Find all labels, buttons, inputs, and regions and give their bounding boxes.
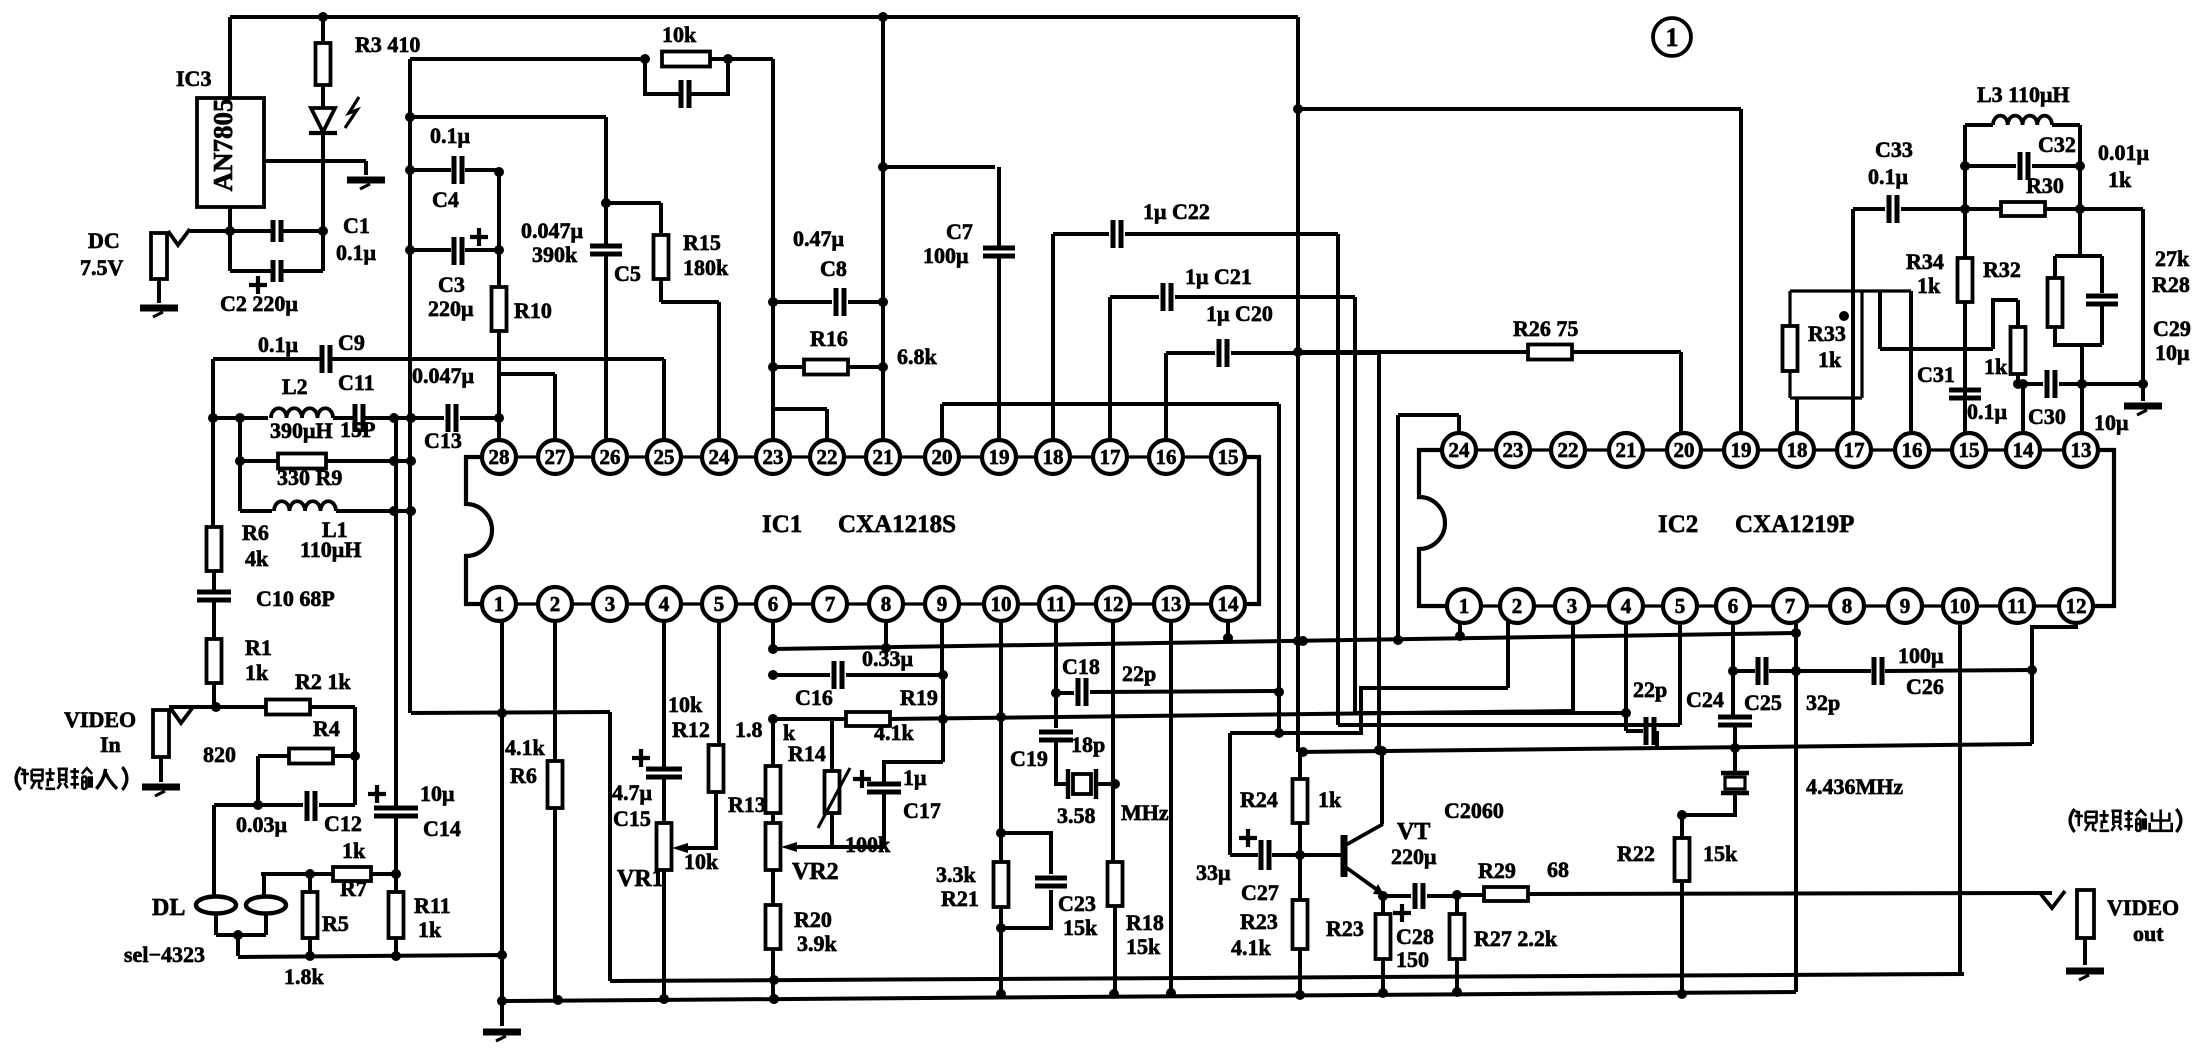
wire pin5 col to R12 <box>717 621 721 745</box>
wire top link to IC2 pin19 <box>1298 107 1741 111</box>
pin 23 <box>1496 433 1530 467</box>
wire R16 left <box>773 365 804 369</box>
svg-text:R33: R33 <box>1808 321 1846 346</box>
pin 9 <box>925 587 959 621</box>
svg-text:1μ C21: 1μ C21 <box>1185 264 1252 289</box>
wire R7 right <box>371 872 396 876</box>
pin 12 <box>2059 589 2093 623</box>
junction video in node <box>211 702 221 712</box>
svg-text:3.58: 3.58 <box>1057 803 1096 828</box>
resistor R24 <box>1293 779 1308 823</box>
wire C8 left <box>773 300 832 304</box>
svg-text:10: 10 <box>991 592 1012 616</box>
wire right edge column <box>2141 209 2145 384</box>
svg-text:390μH: 390μH <box>270 418 333 443</box>
svg-text:15: 15 <box>1218 445 1239 469</box>
wire C12 left <box>214 803 303 807</box>
svg-text:C27: C27 <box>1241 880 1279 905</box>
resistor R18 <box>1108 862 1123 906</box>
junction pin14 <box>1223 633 1233 643</box>
svg-text:32p: 32p <box>1806 690 1840 715</box>
svg-text:0.47μ: 0.47μ <box>793 226 845 251</box>
junction C1 right <box>318 226 328 236</box>
capacitor C30 <box>2047 370 2055 398</box>
wire to main ground <box>500 1001 504 1026</box>
svg-text:C1: C1 <box>343 213 370 238</box>
wire pin22-23 tie <box>773 407 827 411</box>
svg-text:C30: C30 <box>2028 404 2066 429</box>
svg-text:R2 1k: R2 1k <box>295 669 351 694</box>
wire R15 top lead <box>659 203 663 235</box>
pin 15 <box>1952 433 1986 467</box>
wire C29 bottom lead <box>2100 304 2104 345</box>
wire R28 loop top <box>2080 254 2102 258</box>
label video output chinese <box>2070 809 2181 832</box>
svg-text:330 R9: 330 R9 <box>277 465 342 490</box>
wire DL bottom tie <box>216 933 266 937</box>
wire C27 right <box>1272 853 1300 857</box>
wire parallel left leg <box>238 418 242 511</box>
wire pin19 IC2 column <box>1739 109 1743 433</box>
wire emitter to C28 <box>1383 894 1411 898</box>
svg-text:IC2: IC2 <box>1658 511 1698 538</box>
wire VR2-R20 <box>771 870 775 905</box>
svg-text:R20: R20 <box>794 907 832 932</box>
capacitor C4 <box>454 156 462 184</box>
svg-text:4.1k: 4.1k <box>874 720 915 745</box>
svg-text:0.1μ: 0.1μ <box>1967 399 2008 424</box>
svg-text:0.1μ: 0.1μ <box>430 123 471 148</box>
resistor R9 <box>278 454 326 469</box>
svg-text:23: 23 <box>1503 438 1524 462</box>
wire IC3 gnd pin <box>264 159 366 163</box>
wire pin18 column <box>1051 234 1055 440</box>
resistor R28 <box>2048 278 2063 327</box>
wire C33 left lead <box>1853 207 1885 211</box>
svg-text:C11: C11 <box>338 370 375 395</box>
wire R5 top lead <box>308 874 312 892</box>
wire C18 left lead <box>1056 691 1074 695</box>
svg-text:R10: R10 <box>514 298 552 323</box>
resistor R3 <box>316 43 331 85</box>
resistor R30 <box>2001 202 2045 216</box>
pin 2 <box>538 587 572 621</box>
wire R3 to LED <box>321 85 325 108</box>
wire pin13 column <box>1169 621 1173 993</box>
wire cap loop right <box>689 59 728 94</box>
svg-text:21: 21 <box>1616 438 1637 462</box>
svg-text:3.3k: 3.3k <box>936 862 977 887</box>
svg-text:CXA1218S: CXA1218S <box>838 511 956 538</box>
wire C12 right <box>319 803 355 807</box>
junction 10k right <box>723 54 733 64</box>
wire C4 right <box>465 168 499 172</box>
svg-text:R28: R28 <box>2152 272 2190 297</box>
label circled 1 <box>1653 18 1691 56</box>
svg-text:VR2: VR2 <box>792 859 839 885</box>
junction DL bottom <box>233 930 243 940</box>
wire rail to riser <box>411 712 610 713</box>
svg-text:4.1k: 4.1k <box>505 735 546 760</box>
ground right <box>2124 403 2162 410</box>
svg-text:13: 13 <box>2071 438 2092 462</box>
svg-text:R19: R19 <box>900 685 938 710</box>
pin 7 <box>813 587 847 621</box>
svg-text:C5: C5 <box>614 261 641 286</box>
svg-text:10k: 10k <box>668 692 703 717</box>
svg-text:R4: R4 <box>313 716 340 741</box>
wire C7 top row <box>883 165 995 169</box>
svg-text:R12: R12 <box>672 717 710 742</box>
junction R22 top <box>1677 810 1687 820</box>
pin 9 <box>1888 589 1922 623</box>
capacitor C26 <box>1874 657 1882 685</box>
wire C26 right <box>1885 670 2032 671</box>
svg-text:5: 5 <box>714 592 725 616</box>
delay line DL disc 1 <box>196 897 236 914</box>
svg-text:C4: C4 <box>432 187 459 212</box>
pin 25 <box>647 440 681 474</box>
pin 21 <box>866 440 900 474</box>
wiper arrow VR1 <box>672 843 688 853</box>
svg-text:15k: 15k <box>1703 841 1738 866</box>
wire pin6 stub <box>771 621 775 650</box>
pin 11 <box>2000 589 2034 623</box>
wire main right rail <box>1296 17 1300 752</box>
wire pin16 column <box>1164 353 1168 440</box>
wire R7 row left <box>261 872 333 876</box>
junction 10k left <box>640 54 650 64</box>
wire C2 right <box>281 269 323 273</box>
svg-text:10μ: 10μ <box>2155 340 2190 365</box>
svg-text:0.1μ: 0.1μ <box>258 332 299 357</box>
resistor R11 <box>389 892 404 938</box>
junction pin10 col <box>996 712 1006 722</box>
wire C18 jog to IC2 <box>1230 688 1508 733</box>
svg-text:1.8k: 1.8k <box>284 964 325 989</box>
svg-text:VIDEO: VIDEO <box>2107 895 2179 920</box>
svg-text:2: 2 <box>550 592 561 616</box>
capacitor C19 <box>1039 732 1073 740</box>
pin 17 <box>1093 440 1127 474</box>
capacitor C13 <box>448 404 456 432</box>
junction collector <box>1377 746 1387 756</box>
svg-text:100μ: 100μ <box>923 243 969 268</box>
svg-text:14: 14 <box>1218 592 1240 616</box>
wire pin21 column <box>881 17 885 440</box>
wire L3 left <box>1965 123 1993 127</box>
wire IC1 pin rows <box>482 457 1245 604</box>
wire disc2 top <box>262 874 266 897</box>
resistor R32 <box>2011 327 2026 374</box>
svg-text:22: 22 <box>1558 438 1579 462</box>
wire C10 to R1 <box>212 600 216 639</box>
wire to R15 <box>606 201 661 205</box>
svg-text:1k: 1k <box>2108 167 2132 192</box>
pin 14 <box>1211 587 1245 621</box>
svg-text:22p: 22p <box>1633 677 1667 702</box>
junction base node <box>1295 850 1305 860</box>
capacitor C23 <box>1035 878 1067 886</box>
wire collector line <box>1298 744 2032 752</box>
svg-text:11: 11 <box>1046 592 1066 616</box>
svg-text:19: 19 <box>989 445 1010 469</box>
svg-text:6.8k: 6.8k <box>897 344 938 369</box>
wire C33 to R30 <box>1901 207 2001 211</box>
pin 13 <box>2064 433 2098 467</box>
pin 23 <box>756 440 790 474</box>
capacitor C15 <box>646 769 682 777</box>
pin 17 <box>1837 433 1871 467</box>
svg-text:820: 820 <box>203 742 236 767</box>
capacitor C2 <box>273 260 281 282</box>
svg-text:R6: R6 <box>242 520 269 545</box>
wire pin22 stub <box>825 409 829 440</box>
wire pin11 column <box>1054 621 1058 693</box>
wire C20 right <box>1231 351 1379 355</box>
capacitor C17 <box>867 784 901 792</box>
resistor R16 <box>804 360 848 375</box>
svg-text:9: 9 <box>937 592 948 616</box>
wire out jack gnd <box>2083 938 2087 965</box>
wire pin6 col down <box>771 719 775 766</box>
svg-text:VR1: VR1 <box>617 866 664 892</box>
pin 10 <box>1943 589 1977 623</box>
svg-text:C16: C16 <box>795 685 833 710</box>
junction R15 top <box>601 198 611 208</box>
wire pin4 IC2 column <box>1624 624 1628 731</box>
svg-text:4.436MHz: 4.436MHz <box>1806 774 1903 799</box>
wire L1 right <box>336 509 411 513</box>
inductor L3 <box>1993 116 2052 125</box>
resistor R29 <box>1484 887 1528 901</box>
ground IC3 <box>347 177 385 184</box>
junction jog <box>1274 728 1284 738</box>
svg-text:16: 16 <box>1902 438 1923 462</box>
svg-text:C33: C33 <box>1875 137 1913 162</box>
svg-text:0.03μ: 0.03μ <box>236 812 288 837</box>
resistor R26 <box>1528 345 1572 360</box>
wire C4 left <box>410 168 451 172</box>
pin 5 <box>1663 589 1697 623</box>
pin 26 <box>593 440 627 474</box>
junction pin7 <box>1791 628 1801 638</box>
wire pin23 column <box>771 59 775 440</box>
wire bus riser <box>608 712 612 981</box>
wire R22 to bus <box>1680 881 1684 994</box>
junction pin8 <box>881 643 891 653</box>
pin 8 <box>1830 589 1864 623</box>
wire pin12 column <box>1111 621 1115 862</box>
wire upper bus <box>610 974 1964 981</box>
wire R28 top lead <box>2053 256 2057 278</box>
svg-text:R24: R24 <box>1240 787 1278 812</box>
wire right drop 1279 <box>1277 404 1281 733</box>
junction C7 row <box>878 162 888 172</box>
capacitor C5 <box>590 246 622 254</box>
wire R32 top lead <box>2016 300 2020 327</box>
svg-text:10μ: 10μ <box>420 781 455 806</box>
pin 1 <box>482 587 516 621</box>
wire R11 bottom <box>394 938 398 956</box>
wire C32 right <box>2032 164 2080 168</box>
pin 11 <box>1039 587 1073 621</box>
wire R3 top <box>321 17 325 43</box>
wire IC2 pin rows <box>1442 450 2098 606</box>
wire R28 bottom <box>2055 327 2102 345</box>
svg-text:10μ: 10μ <box>2094 410 2129 435</box>
wire C15 to VR1 <box>662 777 666 823</box>
svg-text:390k: 390k <box>532 242 578 267</box>
pin 24 <box>1442 433 1476 467</box>
resistor R23a <box>1293 900 1308 949</box>
wire R4 left leg <box>256 756 260 805</box>
wire C29 top lead <box>2100 256 2104 293</box>
junction R16 left <box>768 362 778 372</box>
wire R20 to bus <box>771 949 775 999</box>
resistor R33 <box>1783 326 1798 371</box>
wire C30 left lead <box>2018 382 2043 386</box>
svg-text:C25: C25 <box>1744 690 1782 715</box>
svg-text:R5: R5 <box>322 911 349 936</box>
junction crystal col <box>1730 743 1740 753</box>
wire C22 left <box>1053 232 1109 236</box>
pot arrow R14 <box>818 768 850 828</box>
capacitor C10 <box>197 592 231 600</box>
wire L3 right <box>2052 123 2080 127</box>
svg-text:R23: R23 <box>1326 916 1364 941</box>
pin 22 <box>1551 433 1585 467</box>
svg-text:C9: C9 <box>338 330 365 355</box>
wire C27 left leg <box>1228 733 1232 855</box>
wire C20 left <box>1166 351 1215 355</box>
svg-text:19: 19 <box>1731 438 1752 462</box>
capacitor 10k parallel <box>681 80 689 108</box>
resistor R6b <box>548 761 563 808</box>
junction R7 right <box>391 869 401 879</box>
wire R30 right <box>2045 207 2143 211</box>
wire C11 right <box>363 416 411 420</box>
junction output node <box>1452 890 1462 900</box>
wire C5 top row <box>410 115 606 119</box>
resistor R19 <box>846 712 890 726</box>
wire L2 row left <box>213 416 268 420</box>
svg-text:27k: 27k <box>2155 246 2190 271</box>
wire pin24 top link <box>1398 413 1459 417</box>
wire C13 left <box>411 416 444 420</box>
svg-text:18: 18 <box>1787 438 1808 462</box>
pin 21 <box>1609 433 1643 467</box>
wire C21 right <box>1175 295 1355 299</box>
svg-text:8: 8 <box>881 592 892 616</box>
wire C22 drop <box>1336 234 1340 725</box>
svg-text:R18: R18 <box>1126 910 1164 935</box>
junction C13 right <box>494 413 504 423</box>
svg-text:1: 1 <box>494 592 505 616</box>
wire C19 top <box>1054 693 1058 728</box>
svg-text:28: 28 <box>489 445 510 469</box>
wire jack gnd <box>159 757 163 782</box>
svg-text:MHz: MHz <box>1121 800 1169 825</box>
wire C23 top loop <box>1001 833 1051 874</box>
wire pin9 stub <box>940 621 944 675</box>
wire C3 right <box>465 248 499 252</box>
pin 18 <box>1780 433 1814 467</box>
svg-text:23: 23 <box>763 445 784 469</box>
wire R12 to VR1 wiper <box>681 792 716 848</box>
wire R32 bottom <box>2016 374 2020 384</box>
svg-text:14: 14 <box>2013 438 2035 462</box>
resistor R2 <box>266 700 310 715</box>
svg-text:18p: 18p <box>1071 732 1105 757</box>
junction R9 left <box>235 456 245 466</box>
wire R11 top <box>394 874 398 892</box>
svg-text:R16: R16 <box>810 326 848 351</box>
wire C18 line <box>1090 691 1279 692</box>
wire C14 bottom <box>394 817 398 874</box>
junction pin1 IC2 <box>1455 631 1465 641</box>
junction crystal/pin12 <box>1110 779 1120 789</box>
wire pin20 top row <box>942 402 1279 406</box>
LED diode <box>311 108 335 132</box>
junction R24 top <box>1298 747 1308 757</box>
wire pin1 IC1 column <box>500 621 504 1001</box>
wire C20 drop <box>1377 353 1381 750</box>
wire pin20 IC2 stub <box>1679 352 1683 433</box>
svg-text:10k: 10k <box>662 22 697 47</box>
pin 2 <box>1500 589 1534 623</box>
svg-text:L3 110μH: L3 110μH <box>1977 82 2070 107</box>
resistor R4 <box>289 749 333 764</box>
resistor R13 <box>766 766 781 813</box>
svg-text:C8: C8 <box>820 256 847 281</box>
junction C25 left <box>1728 666 1738 676</box>
wire C28 right <box>1427 894 1457 898</box>
wire R32 feed <box>1880 347 1993 351</box>
connector DC jack <box>151 233 167 279</box>
wire C8 right <box>848 300 883 304</box>
svg-text:R6: R6 <box>510 763 537 788</box>
svg-text:26: 26 <box>600 445 621 469</box>
svg-text:4.7μ: 4.7μ <box>612 780 653 805</box>
capacitor C1 <box>273 220 281 242</box>
svg-text:20: 20 <box>932 445 953 469</box>
junction IC3 out <box>225 226 235 236</box>
wire pin2 IC1 column <box>553 621 557 761</box>
pin 19 <box>1724 433 1758 467</box>
wire to pin13 <box>2080 345 2084 433</box>
wire R15 to pin24 <box>661 300 719 304</box>
capacitor C29 <box>2086 296 2118 304</box>
wire crystal to R22 <box>1682 793 1735 815</box>
pin 1 <box>1447 589 1481 623</box>
junction C3/R10 <box>494 245 504 255</box>
pin 5 <box>702 587 736 621</box>
svg-text:15k: 15k <box>1063 915 1098 940</box>
svg-text:6: 6 <box>768 592 779 616</box>
wire C1 right <box>281 229 323 233</box>
capacitor C25 <box>1758 657 1766 685</box>
wire IC2 pin1 stub <box>1458 624 1462 636</box>
svg-text:C17: C17 <box>903 798 941 823</box>
svg-text:1: 1 <box>1666 23 1679 52</box>
svg-text:DL: DL <box>152 895 185 921</box>
resistor R10 <box>492 287 507 331</box>
svg-text:R14: R14 <box>788 741 826 766</box>
wire to IC2 pin4 <box>1355 711 1626 715</box>
svg-text:7.5V: 7.5V <box>80 255 124 280</box>
wire C16 right leg <box>941 675 945 762</box>
